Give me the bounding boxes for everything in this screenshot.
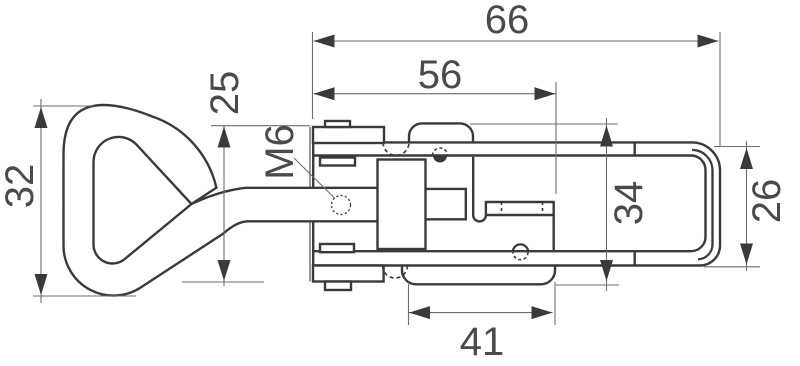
svg-text:26: 26 (745, 179, 789, 224)
svg-text:66: 66 (485, 0, 530, 42)
svg-text:34: 34 (607, 181, 651, 226)
svg-text:32: 32 (0, 164, 42, 209)
svg-text:M6: M6 (258, 124, 302, 180)
svg-text:25: 25 (203, 71, 247, 116)
svg-text:56: 56 (418, 53, 463, 97)
svg-text:41: 41 (460, 320, 505, 364)
